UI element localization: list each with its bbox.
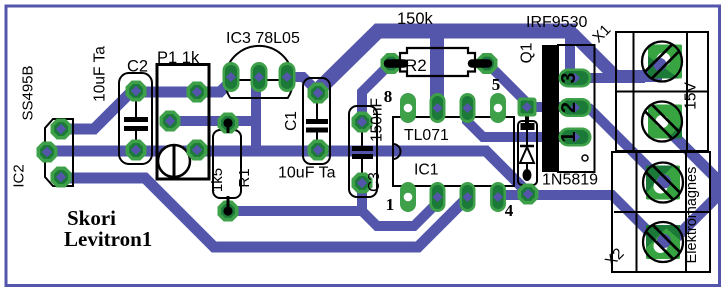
P1 screw circle [158, 145, 190, 177]
IC1 pad pin6 [460, 93, 476, 123]
svg-text:IC2: IC2 [11, 164, 28, 187]
IC1 pad pin2 [430, 182, 446, 212]
svg-text:R2: R2 [405, 56, 427, 75]
svg-text:R1: R1 [236, 168, 253, 187]
wire net2: IC2 pin2 long rail through C2 bottom, P1 pad, C1 bottom to D1 anode [44, 151, 529, 194]
svg-text:10uF Ta: 10uF Ta [92, 46, 109, 102]
C1 top pad [308, 83, 329, 104]
wire net8: vertical under R2 from top trace to IC1 pin 7 [430, 32, 444, 108]
wire net3: IC2 pin3 ground rail bottom to IC1 pin 3 [57, 178, 465, 247]
C1 bottom pad [308, 140, 329, 161]
capacitor C2 body outline [119, 73, 152, 164]
P1 pad middle left [160, 111, 181, 132]
transistor Q1 heatsink tab filled [542, 45, 558, 172]
resistor R2 body outline [400, 48, 475, 76]
svg-text:Elektromágnes: Elektromágnes [684, 167, 700, 264]
wire net13: Q1 pin2 diagonal to X2 top screw [588, 107, 663, 182]
svg-text:4: 4 [505, 201, 514, 220]
D1 anode pad [518, 184, 539, 205]
wire net4: P1 wiper to R1 top to IC3 junction [170, 116, 256, 126]
Q1 index mark circle [582, 155, 588, 161]
capacitor C1 body outline [303, 78, 330, 164]
wire Q1 pin3 to X1 top [574, 73, 645, 83]
svg-text:IC1: IC1 [414, 162, 439, 179]
R1 lead stubs [227, 123, 230, 211]
R2 lead stubs [388, 59, 488, 68]
IC3 78L05 body outline [225, 46, 293, 98]
diode D1 body outline [518, 121, 537, 185]
wire net7 horizontal into X1 top screw [605, 70, 662, 82]
D1 top lead [525, 110, 529, 124]
C3 top pad [352, 112, 373, 133]
C1 cap symbol [306, 99, 328, 145]
svg-text:2: 2 [558, 102, 580, 113]
trimmer P1 body outline [157, 65, 209, 180]
wire IC3 pin3 to C1 top pad [287, 77, 317, 91]
svg-text:C1: C1 [283, 111, 300, 131]
C2 bottom pad [126, 140, 147, 161]
wire net14: ground from IC1 pin4 through D1 anode to X2 bottom screw [496, 195, 661, 244]
svg-text:IRF9530: IRF9530 [526, 14, 587, 31]
IC2 SS495B body outline [45, 119, 73, 186]
X2 screw terminal 2 [643, 222, 683, 262]
svg-text:8: 8 [384, 87, 393, 106]
wire net1: IC2 pin1 to C2 top to P1 top pad to IC3 pin1 [57, 79, 233, 129]
svg-text:Levitron1: Levitron1 [64, 227, 152, 251]
C3 bottom pad [352, 173, 373, 194]
X1 screw terminal 1 [642, 42, 682, 82]
svg-text:1k5: 1k5 [209, 168, 226, 192]
P1 pad top right [187, 82, 208, 103]
IC1 pad pin7 [430, 93, 446, 123]
Q1 body outline [558, 45, 595, 172]
terminal block X1 outline [616, 32, 708, 151]
svg-text:Q1: Q1 [519, 43, 536, 64]
svg-text:1: 1 [558, 131, 580, 142]
D1 cathode pad square [518, 98, 537, 117]
svg-text:15V: 15V [683, 82, 700, 110]
IC1 pad pin3 [460, 182, 476, 212]
IC1 pad pin5 [490, 93, 506, 123]
IC1 pad pin8 [400, 93, 416, 123]
IC3 pad 3 [279, 62, 296, 92]
Q1 pad pin2 [559, 98, 592, 117]
IC3 pad 2 [251, 62, 268, 92]
IC2 pad 1 [51, 119, 72, 140]
IC1 pad pin1 [400, 182, 416, 212]
wire net5: IC3 pin2 vertical down to net2 [251, 79, 261, 152]
C2 top pad [126, 81, 147, 102]
X2 screw terminal 1 [643, 163, 683, 203]
terminal block X2 outline [612, 152, 710, 272]
IC1 pad pin4 [490, 182, 506, 212]
R2 left pad [381, 53, 402, 74]
svg-text:3: 3 [558, 72, 580, 83]
svg-text:1: 1 [386, 195, 395, 214]
IC2 pad 3 [51, 167, 72, 188]
Q1 pad pin3 [559, 69, 592, 88]
svg-text:C2: C2 [127, 58, 148, 76]
svg-text:5: 5 [492, 75, 501, 94]
Q1 pad pin1 [559, 128, 592, 147]
capacitor C3 body outline [349, 106, 377, 197]
R1 top pad [218, 113, 239, 134]
D1 diode symbol [520, 130, 534, 181]
R2 right pad [477, 53, 498, 74]
R1 bottom pad [218, 201, 239, 222]
wire net15: X1 bottom screw to X2 bottom screw via right edge [664, 126, 715, 249]
wire net10: R2 left pad to C3 top pad [362, 63, 391, 122]
wire net7 bend down towards X1 [572, 33, 614, 75]
wire net7: top supply from C1 top pad to X1 terminal 1 [316, 31, 576, 92]
X1 screw terminal 2 [642, 102, 682, 142]
svg-text:1N5819: 1N5819 [542, 172, 598, 189]
svg-text:IC3 78L05: IC3 78L05 [226, 30, 300, 47]
svg-text:SS495B: SS495B [20, 65, 37, 120]
wire net12: D1 cathode to Q1 drain pin2 [524, 102, 574, 112]
IC3 pad 1 [223, 62, 240, 92]
op-amp IC1 TL071 body outline [393, 117, 514, 186]
C2 cap symbol [124, 97, 148, 146]
P1 pad bottom right [187, 140, 208, 161]
svg-text:150k: 150k [397, 10, 434, 28]
IC2 pad 2 [37, 142, 58, 163]
resistor R1 body outline [213, 130, 241, 198]
svg-text:10uF Ta: 10uF Ta [278, 165, 336, 182]
svg-text:P1 1k: P1 1k [157, 49, 200, 67]
wire stub C3 bottom pad to net6 [357, 181, 367, 213]
wire net11: R2 right pad to D1 cathode pad [487, 63, 529, 105]
wire net9: IC1 pin 6 to Q1 gate pin1 [467, 108, 575, 137]
D1 cathode band filled [521, 123, 535, 130]
C3 cap symbol [352, 128, 373, 175]
wire net6: R1 bottom rail to IC1 pin 2 [228, 203, 437, 226]
svg-text:TL071: TL071 [404, 127, 449, 144]
wire net7 vertical to Q1 pin3 [565, 31, 575, 79]
svg-text:C3: C3 [366, 172, 383, 192]
